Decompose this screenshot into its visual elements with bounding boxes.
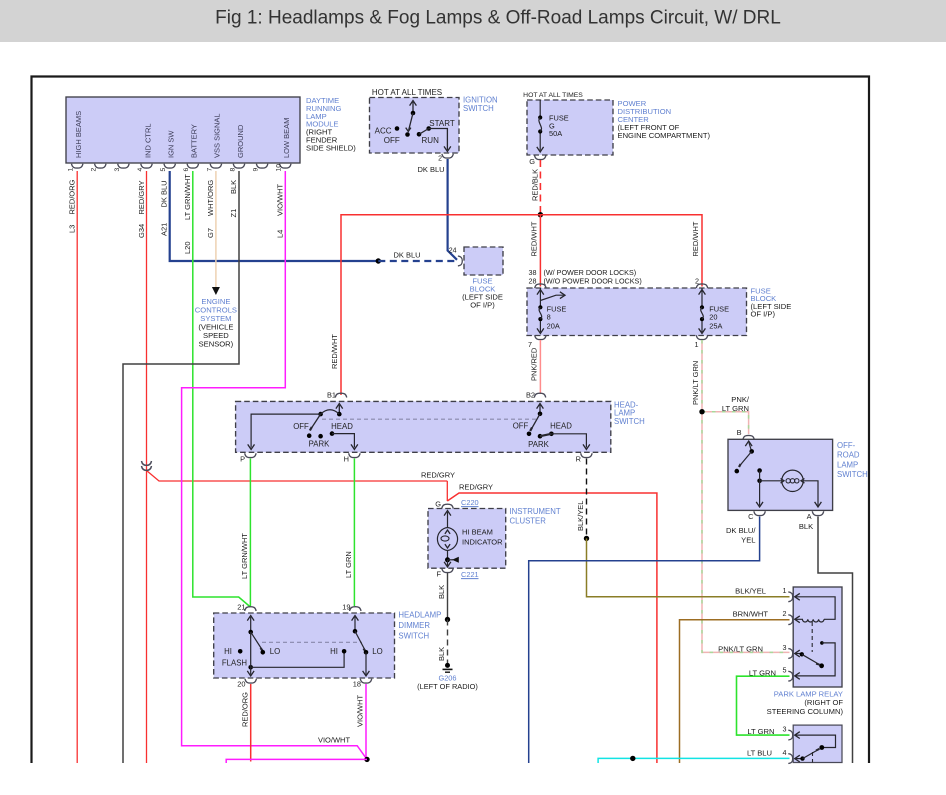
svg-text:HI: HI [330,647,338,656]
label FUSE BLOCK right [751,287,792,319]
wire G7 WHT/ORG pin7 [212,171,220,295]
svg-text:P: P [240,455,245,464]
svg-text:L4: L4 [275,230,284,238]
svg-text:10: 10 [276,164,283,172]
svg-text:HI: HI [224,647,232,656]
junction PNK/LT GRN [699,409,704,414]
svg-text:WHT/ORG: WHT/ORG [206,180,215,216]
svg-text:HIGH BEAMS: HIGH BEAMS [74,111,83,158]
svg-text:B2: B2 [526,391,535,400]
dimmer right section internals [342,616,370,677]
svg-text:GROUND: GROUND [236,124,245,158]
svg-text:2: 2 [91,168,98,172]
label OFF-ROAD LAMP SWITCH [837,441,868,479]
label DK BLU dashed [393,251,420,260]
wire BLK solid [447,573,449,620]
fuse block (left side of I/P) box [527,288,747,336]
svg-text:LO: LO [270,647,280,656]
svg-text:7: 7 [528,340,532,349]
svg-text:C220: C220 [461,498,479,507]
svg-text:PNK/LT GRN: PNK/LT GRN [718,645,763,654]
dimmer pin 21 [237,603,256,612]
dimmer left section internals [238,616,344,677]
label BLK/YEL horizontal [735,587,766,596]
DRL module pins 1-10 [68,164,291,172]
headlamp switch pin R [576,453,592,463]
svg-text:RED/ORG: RED/ORG [68,179,77,214]
ignition switch internals [395,101,451,152]
svg-text:24: 24 [449,248,457,255]
fuse block pin 24 [449,248,463,266]
svg-text:G7: G7 [206,228,215,238]
label PNK/RED [530,347,539,381]
svg-text:R: R [576,455,581,464]
svg-text:28: 28 [529,276,537,285]
DRL module pin name labels [74,111,291,158]
label RED/WHT mid [530,221,539,256]
wire BRN/WHT [680,620,790,763]
svg-text:20A: 20A [547,321,560,330]
svg-text:PARK: PARK [528,440,549,449]
svg-text:ACC: ACC [375,127,392,136]
svg-text:HEAD: HEAD [331,422,353,431]
label VIO/WHT L4 [275,184,284,238]
pin 2 label [695,276,699,285]
ground G206 [443,663,453,672]
svg-text:VIO/WHT: VIO/WHT [356,695,365,727]
label RED/GRY right [459,483,493,492]
svg-text:VIO/WHT: VIO/WHT [275,184,284,216]
label LT GRN/WHT P [240,533,249,579]
label DK BLU/ YEL [726,526,756,545]
label RED/GRY left [421,471,455,480]
wire PNK/LT GRN [702,340,790,652]
label WHT/ORG G7 [206,180,215,238]
svg-text:HOT AT ALL TIMES: HOT AT ALL TIMES [523,92,583,99]
svg-text:C221: C221 [461,570,479,579]
fuse 20 25A [699,288,706,334]
junction VIO/WHT [364,757,369,762]
label PNK/ LT GRN [722,395,750,413]
svg-text:LT GRN: LT GRN [749,668,776,677]
park lamp relay pin 5 [783,666,793,682]
label INSTRUMENT CLUSTER [510,507,561,526]
svg-text:3: 3 [783,643,787,652]
headlamp switch pin B2 [526,391,546,400]
dimmer pin 18 [353,679,372,689]
label HOT AT ALL TIMES (ignition) [372,88,442,97]
svg-text:RUN: RUN [422,136,440,145]
svg-text:LT GRN: LT GRN [747,727,774,736]
svg-text:IND CTRL: IND CTRL [143,123,152,158]
svg-text:F: F [436,570,441,579]
svg-text:(LEFT OF RADIO): (LEFT OF RADIO) [417,682,478,691]
svg-text:HOT AT ALL TIMES: HOT AT ALL TIMES [372,88,442,97]
title bar [0,0,946,42]
svg-text:OF I/P): OF I/P) [751,310,776,319]
svg-text:START: START [429,119,455,128]
off-road switch pin B [737,428,755,440]
svg-text:18: 18 [353,680,361,689]
svg-text:SIDE SHIELD): SIDE SHIELD) [306,143,356,152]
PDC pin G [529,155,546,166]
svg-text:LO: LO [372,647,382,656]
svg-text:20: 20 [709,313,717,322]
ignition switch position labels [375,119,455,145]
pin 38/28 labels [529,268,642,285]
label BLK under A [799,522,813,531]
label VIO/WHT pin18 [356,695,365,727]
label LT GRN H [344,551,353,578]
svg-text:H: H [344,455,349,464]
svg-text:Fig 1: Headlamps & Fog Lamps &: Fig 1: Headlamps & Fog Lamps & Off-Road … [215,8,781,29]
park lamp relay switch [795,641,835,679]
svg-text:PNK/RED: PNK/RED [530,347,539,381]
svg-text:25A: 25A [709,321,722,330]
headlamp switch right section internals [527,404,590,450]
inline connector on RED/GRY [142,461,152,470]
svg-text:CLUSTER: CLUSTER [510,517,547,526]
headlamp switch link dashed [322,418,537,420]
svg-text:FLASH: FLASH [222,659,247,668]
power distribution center [527,100,613,155]
wire LT GRN relay loop [737,676,790,735]
label PNK/LT GRN relay [718,645,763,654]
wire L20 LT GRN/WHT pin6 [193,171,251,607]
wire RED/BLK [539,160,541,213]
label RED/WHT right [691,221,700,256]
label VIO/WHT horizontal [318,736,350,745]
fuse block (I/P) small box [464,247,503,275]
svg-text:BLK/YEL: BLK/YEL [735,587,766,596]
svg-text:PARK LAMP RELAY: PARK LAMP RELAY [774,690,843,699]
svg-text:4: 4 [783,748,787,757]
svg-text:HEADLAMP: HEADLAMP [398,611,441,620]
label BRN/WHT [733,610,769,619]
svg-text:4: 4 [137,168,144,172]
fuse block pin 2 connector [696,284,707,288]
svg-text:BRN/WHT: BRN/WHT [733,610,769,619]
svg-text:DK BLU: DK BLU [393,251,420,260]
off-road switch internals [735,441,822,507]
svg-text:OFF-: OFF- [837,441,856,450]
instrument cluster box [428,509,506,569]
svg-text:2: 2 [695,276,699,285]
svg-text:RED/ORG: RED/ORG [241,692,250,727]
svg-text:L20: L20 [183,241,192,254]
svg-text:1: 1 [68,168,75,172]
svg-text:(W/O POWER DOOR LOCKS): (W/O POWER DOOR LOCKS) [544,276,642,285]
svg-text:INSTRUMENT: INSTRUMENT [510,507,561,516]
svg-text:OF I/P): OF I/P) [470,301,495,310]
svg-text:BATTERY: BATTERY [190,124,199,158]
fog lamp relay internals [795,732,836,763]
wire BLK/YEL dashed [586,459,588,539]
diagram frame [32,77,870,764]
svg-text:BLK: BLK [229,180,238,194]
svg-text:BLK: BLK [437,585,446,599]
label RED/GRY G34 [137,180,146,238]
svg-text:OFF: OFF [293,422,309,431]
svg-text:INDICATOR: INDICATOR [462,537,503,546]
park lamp relay pin 1 [783,586,793,602]
svg-text:DK BLU: DK BLU [160,180,169,207]
svg-text:RED/GRY: RED/GRY [137,180,146,214]
junction BLK/YEL [584,536,589,541]
label BLK/YEL vertical [576,501,585,531]
svg-text:SWITCH: SWITCH [614,417,645,426]
svg-text:Z1: Z1 [229,209,238,218]
park lamp relay pin 3 [783,643,793,658]
svg-text:5: 5 [783,666,787,675]
svg-text:RED/BLK: RED/BLK [531,169,540,201]
svg-text:LT GRN: LT GRN [722,404,749,413]
junction DK BLU [376,258,381,263]
label BLK lower [437,647,446,661]
svg-text:PARK: PARK [309,440,330,449]
wire DK BLU ignition to fuse block [448,159,457,260]
wire RED/WHT net [341,215,702,395]
svg-text:ENGINE COMPARTMENT): ENGINE COMPARTMENT) [618,131,711,140]
label BLK Z1 [229,180,238,218]
headlamp dimmer switch box [214,613,395,678]
label BLK upper [437,585,446,599]
svg-text:LT GRN: LT GRN [344,551,353,578]
connector C220 [461,498,479,507]
headlamp switch pin B1 [327,391,347,400]
daytime running lamp module U1 [66,97,300,163]
svg-text:LOW BEAM: LOW BEAM [282,118,291,158]
label POWER DISTRIBUTION CENTER [618,99,711,140]
svg-text:HI BEAM: HI BEAM [462,528,493,537]
svg-text:OFF: OFF [384,136,400,145]
label LT GRN pin5 [749,668,776,677]
wire L4 VIO/WHT pin10 [182,171,367,759]
svg-text:L3: L3 [68,225,77,233]
svg-text:RED/GRY: RED/GRY [421,471,455,480]
svg-text:G: G [435,500,441,509]
svg-text:VSS SIGNAL: VSS SIGNAL [213,113,222,158]
svg-text:IGN SW: IGN SW [167,130,176,158]
engine controls system text [195,297,237,349]
svg-text:19: 19 [342,603,350,612]
label HEAD-LAMP SWITCH [614,401,645,426]
label RED/WHT left [330,334,339,369]
label FUSE BLOCK (LEFT SIDE OF I/P) [462,277,503,310]
svg-text:LT BLU: LT BLU [747,749,772,758]
svg-text:50A: 50A [549,129,562,138]
label HOT AT ALL TIMES (PDC) [523,92,583,99]
label RED/ORG pin20 [241,692,250,727]
label LEFT OF RADIO [417,682,478,691]
svg-text:RED/WHT: RED/WHT [330,334,339,369]
fuse 8 text [547,305,567,331]
svg-text:8: 8 [547,313,551,322]
connector C221 [461,570,479,579]
wire LT GRN/WHT P [249,459,251,607]
headlamp switch left section internals [248,404,358,450]
svg-text:PNK/LT GRN: PNK/LT GRN [691,361,700,405]
svg-text:3: 3 [114,168,121,172]
svg-text:5: 5 [160,168,167,172]
DRL module name text [306,96,356,152]
svg-text:B1: B1 [327,391,336,400]
hi beam indicator lamp [437,511,457,559]
svg-text:B: B [737,428,742,437]
fog lamp relay pin 4 [783,748,793,764]
park lamp relay coil [795,593,835,652]
label G206 [438,674,456,683]
svg-text:YEL: YEL [741,536,755,545]
label DK BLU A21 [160,180,169,236]
label PARK LAMP RELAY [767,690,844,716]
svg-text:C: C [748,512,754,521]
fuse G 50A [537,100,544,152]
junction BLK [445,617,450,622]
svg-text:8: 8 [229,168,236,172]
label RED/ORG L3 [68,179,77,233]
svg-text:SWITCH: SWITCH [463,104,494,113]
wire PNK/RED [539,340,541,394]
wire RED/ORG pin20 [250,684,252,762]
svg-text:DK BLU: DK BLU [417,165,444,174]
junction LT BLU [630,756,635,761]
dimmer pin 19 [342,603,361,612]
svg-text:DK BLU/: DK BLU/ [726,526,756,535]
off-road lamp switch box [728,439,833,510]
wire Z1 BLK pin8 [123,171,239,763]
dimmer left labels [222,647,280,668]
dimmer link dashed [262,641,362,643]
wire VIO/WHT pin18 [365,684,367,759]
svg-text:1: 1 [783,586,787,595]
headlamp switch left labels [293,422,353,449]
svg-text:21: 21 [237,603,245,612]
fuse 8 20A [537,288,565,334]
svg-text:OFF: OFF [513,422,529,431]
wire LT BLU [598,758,789,763]
svg-text:BLK: BLK [437,647,446,661]
svg-text:LT GRN/WHT: LT GRN/WHT [183,174,192,220]
cluster pin F [436,568,453,578]
svg-text:3: 3 [783,725,787,734]
fuse 20 text [709,305,729,331]
svg-text:2: 2 [783,609,787,618]
park lamp relay box [793,587,842,687]
wire VIO/WHT to bottom [226,759,367,763]
headlamp switch pin H [344,453,360,463]
label RED/BLK [531,169,540,201]
fuse block pin 1 [695,335,708,349]
svg-text:1: 1 [695,340,699,349]
wire DK BLU dashed to fuse block [378,260,456,262]
off-road switch pin C [748,511,765,521]
svg-text:PNK/: PNK/ [731,395,750,404]
hi beam indicator text [462,528,503,547]
svg-text:BLK/YEL: BLK/YEL [576,501,585,531]
fuse block pin 38/28 connector [535,284,546,288]
cluster pin G [435,500,453,509]
svg-text:SENSOR): SENSOR) [199,340,234,349]
svg-text:VIO/WHT: VIO/WHT [318,736,350,745]
label IGNITION SWITCH [463,96,498,113]
svg-text:A: A [807,512,812,521]
label LT GRN pin3 [747,727,774,736]
wire BLK from off-road A [818,517,853,764]
dimmer right labels [330,647,383,656]
wire LT GRN H [353,459,355,607]
svg-text:BLK: BLK [799,522,813,531]
wire DK BLU/YEL [529,517,760,764]
svg-text:9: 9 [253,168,260,172]
junction RED/BLK RED/WHT [538,212,543,217]
svg-text:RED/WHT: RED/WHT [691,221,700,256]
fog lamp relay box [793,725,842,762]
svg-text:SWITCH: SWITCH [837,470,868,479]
svg-text:G34: G34 [137,224,146,238]
wire A21 DK BLU pin5 [170,171,379,261]
fuse block pin 7 [528,335,546,349]
cluster branch arrow [444,557,459,567]
svg-text:LAMP: LAMP [837,460,858,469]
headlamp switch right labels [513,422,572,450]
headlamp switch box [236,401,611,452]
wire L3 RED/ORG pin1 [76,171,78,763]
wire RED/GRY to instrument cluster branch [447,493,657,763]
off-road switch pin A [807,511,824,521]
svg-text:HEAD: HEAD [550,422,572,431]
svg-text:ROAD: ROAD [837,451,860,460]
park lamp relay pin 2 [783,609,793,625]
svg-text:LT GRN/WHT: LT GRN/WHT [240,533,249,579]
svg-text:SWITCH: SWITCH [398,632,429,641]
label LT GRN/WHT L20 [183,174,192,254]
label DK BLU (ignition feed) [417,165,444,174]
ignition switch pin 2 [438,154,453,163]
svg-text:2: 2 [438,156,442,163]
svg-text:G: G [529,157,535,166]
svg-text:(RIGHT OF: (RIGHT OF [804,698,843,707]
svg-text:20: 20 [237,680,245,689]
dimmer pin 20 [237,679,256,689]
svg-text:7: 7 [206,168,213,172]
svg-text:RED/GRY: RED/GRY [459,483,493,492]
svg-text:DIMMER: DIMMER [398,621,430,630]
wire BLK/YEL to relay [587,538,790,596]
label HEADLAMP DIMMER SWITCH [398,611,441,641]
svg-text:A21: A21 [160,223,169,236]
svg-text:STEERING COLUMN): STEERING COLUMN) [767,707,844,716]
svg-text:RED/WHT: RED/WHT [530,221,539,256]
headlamp switch pin P [240,453,256,463]
fuse G 50A text [549,114,569,139]
label PNK/LT GRN vertical [691,361,700,405]
label LT BLU [747,749,772,758]
fog lamp relay pin 3 [783,725,793,741]
svg-text:6: 6 [183,168,190,172]
wire BLK dashed [447,620,449,664]
ignition switch S1 [370,98,460,154]
wire G34 RED/GRY pin4 [147,171,448,763]
